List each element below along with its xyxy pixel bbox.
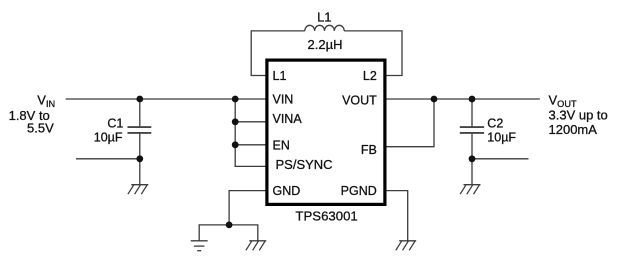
svg-text:VIN: VIN [37, 93, 55, 110]
svg-text:EN: EN [273, 139, 290, 153]
svg-text:3.3V up to: 3.3V up to [549, 108, 608, 123]
svg-text:VIN: VIN [273, 92, 294, 106]
svg-text:2.2µH: 2.2µH [308, 37, 343, 52]
svg-text:C2: C2 [487, 117, 503, 131]
svg-text:VOUT: VOUT [342, 93, 377, 107]
svg-text:L1: L1 [273, 69, 287, 83]
svg-text:TPS63001: TPS63001 [295, 208, 357, 223]
svg-text:PGND: PGND [341, 184, 377, 198]
svg-text:GND: GND [273, 184, 301, 198]
svg-text:VINA: VINA [273, 112, 303, 126]
svg-text:10µF: 10µF [94, 131, 123, 145]
svg-text:L2: L2 [363, 69, 377, 83]
svg-text:FB: FB [361, 143, 377, 157]
svg-text:PS/SYNC: PS/SYNC [276, 157, 333, 172]
svg-text:5.5V: 5.5V [27, 121, 54, 136]
svg-text:10µF: 10µF [487, 131, 516, 145]
svg-text:C1: C1 [107, 117, 123, 131]
svg-text:1200mA: 1200mA [549, 122, 598, 137]
svg-text:L1: L1 [317, 10, 331, 25]
